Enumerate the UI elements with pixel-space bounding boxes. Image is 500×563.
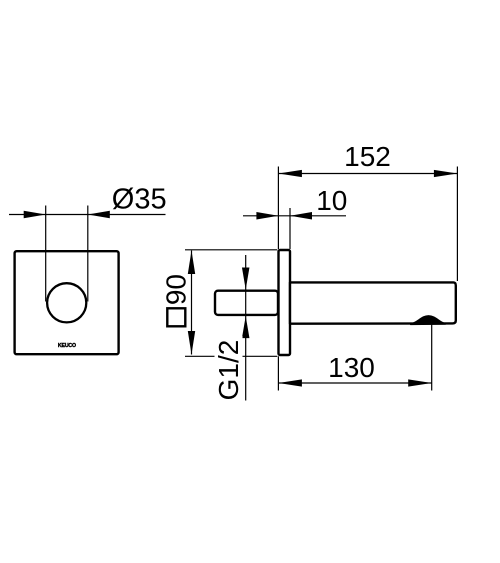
wall plate front view — [15, 251, 119, 354]
spout body — [290, 282, 456, 323]
dim G1/2 label background — [215, 336, 243, 403]
svg-text:152: 152 — [344, 141, 391, 172]
dim Ø35 arrow left — [24, 211, 46, 219]
dim 152 arrow right — [434, 170, 458, 177]
dim 10 extension line right — [289, 208, 291, 249]
dim 90 arrow bottom — [188, 331, 195, 355]
svg-text:G1/2: G1/2 — [213, 340, 244, 401]
dim Ø35 extension line right — [87, 206, 89, 302]
dim Ø35 line — [9, 214, 166, 216]
dim 10 line — [243, 215, 346, 217]
dim 90 top extension line — [185, 249, 277, 251]
dim 10 arrow left — [256, 212, 278, 220]
dim Ø35 arrow right — [88, 211, 110, 219]
spout outlet dome — [411, 316, 446, 325]
dim 130 line — [278, 382, 431, 384]
dim 130 extension line left — [277, 356, 279, 390]
dim Ø35 extension line left — [45, 206, 47, 302]
dim 152 line — [278, 173, 457, 175]
wall flange side view — [279, 250, 291, 355]
dim G1/2 arrow up — [242, 316, 250, 338]
dim 90 square symbol — [167, 308, 185, 326]
dim 130 arrow right — [408, 379, 432, 386]
svg-text:130: 130 — [328, 352, 375, 383]
svg-text:90: 90 — [161, 274, 192, 305]
svg-text:Ø35: Ø35 — [112, 184, 167, 216]
dim 130 extension line right — [431, 325, 433, 391]
dim 90 bottom extension line — [185, 355, 277, 357]
svg-text:KEUCO: KEUCO — [58, 343, 76, 349]
dim G1/2 line — [245, 255, 247, 401]
dim G1/2 arrow down — [242, 268, 250, 290]
dim 90 line — [191, 251, 193, 355]
dim 152 extension line left — [277, 167, 279, 250]
dim 90 arrow top — [188, 251, 195, 275]
dim 152 extension line right — [456, 167, 458, 282]
dim 130 arrow left — [278, 379, 302, 386]
svg-text:10: 10 — [316, 185, 347, 216]
dim 10 arrow right — [290, 212, 312, 220]
pipe stub G1/2 — [215, 291, 278, 315]
dim 152 arrow left — [278, 170, 302, 177]
spout hole circle — [47, 283, 86, 322]
